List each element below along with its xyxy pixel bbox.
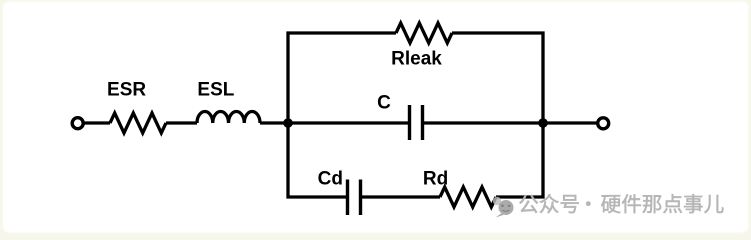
svg-text:ESL: ESL xyxy=(197,80,234,101)
resistor Rleak xyxy=(396,23,452,43)
svg-text:ESR: ESR xyxy=(107,80,146,101)
watermark icon front bubble xyxy=(496,200,514,218)
node A junction dot xyxy=(283,118,293,128)
resistor ESR xyxy=(110,113,166,133)
svg-text:Rd: Rd xyxy=(423,169,448,190)
capacitor C xyxy=(410,105,423,140)
wire node B to right terminal xyxy=(543,121,597,124)
svg-text:Cd: Cd xyxy=(318,169,343,190)
inductor ESL xyxy=(197,112,260,124)
watermark text 公众号·硬件那点事儿 xyxy=(519,194,723,213)
wire Cd to Rd xyxy=(361,195,441,198)
wire left terminal to ESR xyxy=(84,121,111,124)
svg-text:C: C xyxy=(377,93,391,114)
terminal right xyxy=(598,118,609,129)
node B junction dot xyxy=(538,118,548,128)
wire left vertical branch with top/bottom corners xyxy=(288,33,396,197)
wire middle branch left xyxy=(288,121,410,124)
watermark icon back bubble xyxy=(493,197,501,205)
resistor Rd xyxy=(440,187,496,207)
wire middle branch right xyxy=(423,121,544,124)
wire top branch right with corner down to bottom-right xyxy=(452,33,543,197)
wire ESL to node A xyxy=(260,121,288,124)
wire ESR to ESL xyxy=(166,121,197,124)
terminal left xyxy=(72,118,83,129)
svg-text:Rleak: Rleak xyxy=(391,49,442,70)
capacitor Cd xyxy=(348,180,361,216)
